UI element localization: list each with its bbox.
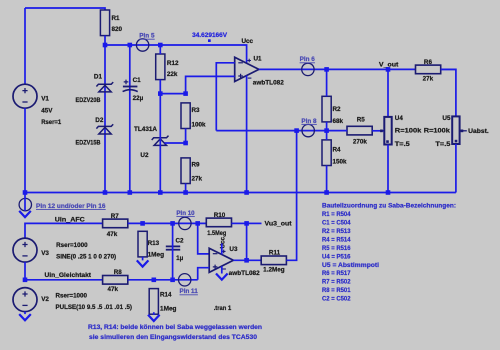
resistor R7 (103, 219, 128, 228)
value 47k R7 (107, 231, 118, 238)
svg-text:1µ: 1µ (176, 255, 184, 262)
wire R12 top (159, 45, 161, 54)
op-amp U3 (209, 248, 233, 272)
junction R13 top (140, 221, 145, 226)
label Pin 5 (139, 33, 155, 40)
label R11 (269, 250, 281, 257)
svg-text:100k: 100k (192, 122, 207, 129)
value EDZV20B (76, 97, 101, 104)
wire U2 reference (165, 142, 186, 144)
label R2 (333, 106, 342, 113)
junction bus C1 (128, 190, 133, 195)
junction R12 top node (158, 43, 163, 48)
wire 0V bus (25, 192, 456, 194)
svg-text:V2: V2 (41, 296, 49, 303)
junction bus D2 (103, 190, 108, 195)
label R4 (333, 146, 342, 153)
capacitor C2 (166, 246, 180, 249)
label Ucc rotated (219, 236, 226, 248)
junction bus U1 supply (244, 190, 249, 195)
wire C2 through (172, 223, 174, 279)
svg-text:34.629166V: 34.629166V (192, 32, 228, 39)
svg-text:Pin 5: Pin 5 (139, 33, 155, 40)
resistor R4 (322, 140, 331, 166)
node Ucc rail wire (105, 45, 247, 63)
port arrow below U3 (216, 274, 228, 280)
pin 12 port arrow (19, 211, 31, 217)
wire R9 bottom to bus (185, 184, 187, 193)
wire V1 bottom to bus (24, 108, 26, 192)
wiper arrow U4 (380, 130, 383, 133)
value 27k R9 (192, 176, 203, 183)
wire pin12 stub (24, 193, 26, 211)
node Uin_AFC label (55, 216, 86, 223)
svg-text:1.5Meg: 1.5Meg (207, 230, 226, 237)
svg-text:22k: 22k (167, 71, 178, 78)
label R9 (192, 162, 201, 169)
svg-text:T=.5: T=.5 (435, 141, 451, 148)
label Pin 10 (176, 210, 195, 217)
wire R4 bottom to bus (326, 166, 328, 193)
label V1 (41, 95, 49, 102)
zener diode D1 (96, 82, 113, 92)
wire R10 right (232, 222, 247, 224)
svg-text:R13: R13 (148, 240, 160, 247)
svg-text:SINE(0 .25 1 0 0 270): SINE(0 .25 1 0 0 270) (56, 254, 116, 261)
svg-text:T=.5: T=.5 (395, 141, 411, 148)
svg-text:R4 = R514: R4 = R514 (322, 236, 351, 243)
annotation 34.629166V (192, 32, 228, 42)
wire R7 right (128, 222, 207, 224)
svg-text:EDZV15B: EDZV15B (76, 139, 101, 146)
wire V1 top to R1 (25, 8, 105, 10)
svg-text:Rser=1: Rser=1 (41, 119, 61, 126)
label R13 (148, 240, 160, 247)
svg-text:68k: 68k (333, 118, 344, 125)
value awbTL082 U3 (229, 270, 260, 277)
pin 8 port circle (302, 124, 314, 136)
value EDZV15B (76, 139, 101, 146)
svg-text:U2: U2 (140, 152, 149, 159)
junction Vu3_out node (244, 221, 249, 226)
label U5 (442, 115, 451, 122)
svg-text:150k: 150k (333, 158, 348, 165)
value R=100k U4 (395, 128, 422, 135)
svg-text:Bauteilzuordnung zu Saba-Bezei: Bauteilzuordnung zu Saba-Bezeichnungen: (322, 203, 456, 210)
comment Saba mapping list (322, 203, 456, 303)
svg-text:U4: U4 (395, 115, 404, 122)
value Rser=1000 V3 (56, 242, 88, 249)
wire Vu3_out stub (247, 222, 262, 224)
pin 6 port circle (302, 63, 314, 75)
svg-text:R=100k: R=100k (395, 128, 422, 135)
svg-text:awbTL082: awbTL082 (253, 79, 284, 86)
label Pin 12 und/oder Pin 16 (36, 203, 106, 210)
svg-text:U5: U5 (442, 115, 451, 122)
wire R12 bottom (159, 80, 161, 94)
junction R2 top node (324, 67, 329, 72)
value 270k (353, 139, 368, 146)
value 100k (192, 122, 207, 129)
svg-text:Rser=1000: Rser=1000 (56, 242, 88, 249)
wire R4 top (326, 131, 328, 140)
svg-text:R7 = R502: R7 = R502 (322, 279, 351, 286)
svg-text:R7: R7 (111, 213, 120, 220)
node Uin_Gleichtakt label (45, 272, 92, 279)
wire U4 bottom to bus (387, 145, 389, 193)
label R6 (424, 59, 433, 66)
svg-text:U1: U1 (254, 55, 263, 62)
wire U1 inverting input (216, 63, 234, 131)
svg-text:TL431A: TL431A (134, 126, 157, 133)
svg-text:1Meg: 1Meg (160, 305, 177, 312)
junction bus V1 (23, 190, 28, 195)
wire Vout down to U4 (387, 69, 389, 117)
wire R14 stub (153, 312, 155, 315)
svg-text:1Meg: 1Meg (148, 251, 165, 258)
junction bus R4 (324, 190, 329, 195)
comment R13 R14 note (88, 324, 262, 341)
shunt regulator U2 TL431A (152, 136, 169, 146)
svg-text:Pin 10: Pin 10 (176, 210, 195, 217)
wire R1 bottom (104, 36, 106, 45)
svg-text:22µ: 22µ (133, 95, 144, 102)
junction R1-D1-C1 node (103, 43, 108, 48)
wire U5 bottom to bus (455, 144, 457, 193)
value 45V (41, 108, 53, 115)
svg-text:270k: 270k (353, 139, 368, 146)
svg-text:C1 = C504: C1 = C504 (322, 220, 351, 227)
svg-text:47k: 47k (107, 231, 118, 238)
potentiometer U4 (384, 117, 391, 145)
wire C1 through (129, 45, 131, 193)
svg-text:R1: R1 (112, 15, 121, 22)
resistor R9 (181, 158, 190, 184)
svg-text:Ucc: Ucc (242, 38, 254, 45)
capacitor C1 (123, 80, 138, 92)
label D1 (94, 74, 103, 81)
label V2 (41, 296, 49, 303)
junction U3 out node (244, 258, 249, 263)
voltage source V2 (13, 288, 37, 312)
svg-text:Uabst.: Uabst. (468, 128, 489, 135)
port arrow below R14 (148, 315, 160, 321)
op-amp U1 (235, 57, 259, 81)
label TL431A (134, 126, 157, 133)
value Rser=1 (41, 119, 61, 126)
resistor R10 (206, 218, 231, 227)
wire U3 neg supply (221, 266, 223, 273)
value 27k R6 (423, 76, 434, 83)
label Pin 11 (180, 288, 199, 295)
voltage source V3 (13, 238, 37, 262)
label U2 (140, 152, 149, 159)
svg-text:Pin 6: Pin 6 (300, 56, 316, 63)
pin 10 port circle (179, 217, 191, 229)
svg-text:R5: R5 (357, 117, 366, 124)
wire R3 bottom (185, 129, 187, 144)
svg-text:R8: R8 (114, 269, 123, 276)
svg-text:Pin 8: Pin 8 (301, 118, 317, 125)
label R10 (214, 212, 226, 219)
svg-text:R2: R2 (333, 106, 342, 113)
zener diode D2 (96, 124, 113, 134)
resistor R12 (156, 54, 165, 80)
svg-text:Pin 11: Pin 11 (180, 288, 199, 295)
svg-text:Rser=1000: Rser=1000 (56, 292, 88, 299)
svg-text:U5 = Abstimmpoti: U5 = Abstimmpoti (322, 262, 379, 269)
svg-text:EDZV20B: EDZV20B (76, 97, 101, 104)
wire V1 positive lead (24, 8, 26, 84)
svg-text:C1: C1 (133, 77, 142, 84)
svg-text:R6: R6 (424, 59, 433, 66)
wire Pin8 rail (216, 130, 326, 132)
svg-text:R8 = R501: R8 = R501 (322, 287, 351, 294)
svg-text:Uin_Gleichtakt: Uin_Gleichtakt (45, 272, 92, 279)
svg-text:R3: R3 (192, 107, 201, 114)
potentiometer U5 (452, 116, 459, 144)
svg-text:V1: V1 (41, 95, 49, 102)
label V3 (41, 250, 49, 257)
value 1.2Meg (263, 267, 285, 274)
svg-text:R10: R10 (214, 212, 226, 219)
resistor R8 (103, 276, 128, 285)
junction C1 top node (128, 43, 133, 48)
node Vu3_out label (265, 221, 293, 228)
label D2 (95, 117, 104, 124)
svg-text:Ucc: Ucc (219, 236, 226, 248)
label Pin 6 (300, 56, 316, 63)
svg-text:R2 = R513: R2 = R513 (322, 228, 351, 235)
wiper stub U5 (460, 130, 467, 133)
pin 5 port circle (136, 39, 148, 51)
value 1.5Meg (207, 230, 226, 237)
svg-text:27k: 27k (423, 76, 434, 83)
node Uabst label (468, 128, 489, 135)
value 1Meg R14 (160, 305, 177, 312)
wire R5 to U4 wiper (372, 130, 384, 132)
junction R14 top (152, 278, 157, 283)
label R3 (192, 107, 201, 114)
resistor R2 (322, 96, 331, 122)
svg-text:R14: R14 (160, 292, 172, 299)
wire V2 bottom stub (24, 312, 26, 315)
value 22k (167, 71, 178, 78)
svg-text:R13, R14: beide können bei Sab: R13, R14: beide können bei Saba weggelas… (88, 324, 262, 331)
label U4 (395, 115, 404, 122)
wire Uin_Gleichtakt rail (25, 279, 103, 281)
resistor R1 (100, 10, 109, 36)
pin 11 port circle (179, 274, 191, 286)
value awbTL082 U1 (253, 79, 284, 86)
wire U1 non-inverting input (186, 76, 235, 93)
svg-text:.tran 1: .tran 1 (214, 305, 232, 312)
svg-text:Vu3_out: Vu3_out (265, 221, 293, 228)
resistor R14 (149, 289, 158, 315)
svg-text:R9: R9 (192, 162, 201, 169)
label R1 (112, 15, 121, 22)
junction R3-R9-ref node (183, 141, 188, 146)
wire R11 right up (286, 131, 296, 261)
wire R8 right (128, 279, 198, 281)
svg-text:D2: D2 (95, 117, 104, 124)
wire U3 pos supply (221, 243, 223, 254)
label C1 (133, 77, 142, 84)
junction V_out node (386, 67, 391, 72)
label R7 (111, 213, 120, 220)
value 150k (333, 158, 348, 165)
value SINE V3 (56, 254, 116, 261)
junction C2 bottom (170, 278, 175, 283)
port arrow below V2 (19, 314, 31, 320)
svg-text:47k: 47k (108, 286, 119, 293)
junction R2-R4-R5 node (324, 128, 329, 133)
value T=.5 U4 (395, 141, 411, 148)
junction R12 bottom (158, 91, 163, 96)
voltage source V1 (13, 84, 37, 108)
wire R5 left (327, 130, 347, 132)
value 22u (133, 95, 144, 102)
junction bus R9 (183, 190, 188, 195)
label Ucc top (242, 38, 254, 45)
svg-text:45V: 45V (41, 108, 53, 115)
svg-text:V3: V3 (41, 250, 49, 257)
wire D1-D2 through (104, 45, 106, 193)
node V_out label (379, 62, 399, 69)
label C2 (176, 237, 185, 244)
resistor R13 (138, 231, 147, 257)
resistor R11 (261, 256, 286, 265)
svg-text:Uin_AFC: Uin_AFC (55, 216, 86, 223)
value Rser=1000 V2 (56, 292, 88, 299)
wire U1 negative supply to bus (246, 76, 248, 193)
junction R11 top node (294, 128, 299, 133)
svg-text:C2 = C502: C2 = C502 (322, 296, 351, 303)
wire U3 output (233, 259, 262, 261)
wire U3 noninv path (198, 268, 210, 280)
resistor R3 (181, 103, 190, 129)
wire Uin_AFC rail (25, 223, 103, 238)
svg-text:U3: U3 (229, 246, 238, 253)
label R8 (114, 269, 123, 276)
wire U2 cathode-anode (159, 94, 161, 193)
value 1Meg R13 (148, 251, 165, 258)
wire R6 right down to U5 (441, 69, 456, 116)
port arrow below R13 (137, 260, 149, 266)
resistor R5 (347, 126, 372, 135)
svg-text:R12: R12 (167, 60, 179, 67)
wire U3 inv path (198, 223, 210, 254)
wire Vu3out down (246, 223, 248, 260)
wire R13 stub (142, 257, 144, 261)
wire V3 bottom (24, 262, 26, 280)
label Pin 8 (301, 118, 317, 125)
resistor R6 (416, 65, 441, 74)
value 1u C2 (176, 255, 184, 262)
svg-text:R6 = R517: R6 = R517 (322, 270, 351, 277)
svg-text:PULSE(10 9.5 .5 .01 .01 .5): PULSE(10 9.5 .5 .01 .01 .5) (56, 304, 133, 311)
svg-text:820: 820 (112, 26, 123, 33)
svg-text:R4: R4 (333, 146, 342, 153)
junction bus U2 (158, 190, 163, 195)
junction bus U4 (386, 190, 391, 195)
wire R12 to R3 node (160, 93, 185, 95)
wire R2 top (326, 69, 328, 96)
svg-text:1.2Meg: 1.2Meg (263, 267, 285, 274)
label R5 (357, 117, 366, 124)
svg-text:R5 = R516: R5 = R516 (322, 245, 351, 252)
svg-text:R=100k: R=100k (424, 128, 451, 135)
svg-text:R1 = R504: R1 = R504 (322, 211, 351, 218)
junction R3 top (183, 91, 188, 96)
wire U1 output rail (259, 68, 456, 70)
junction C2 top (170, 221, 175, 226)
svg-text:U4 = P516: U4 = P516 (322, 253, 351, 260)
svg-text:C2: C2 (176, 237, 185, 244)
svg-text:R11: R11 (269, 250, 281, 257)
junction U3 inv node (195, 221, 200, 226)
svg-text:D1: D1 (94, 74, 103, 81)
svg-text:awbTL082: awbTL082 (229, 270, 260, 277)
svg-text:sie simulieren den Eingangswid: sie simulieren den Eingangswiderstand de… (89, 334, 258, 341)
svg-text:27k: 27k (192, 176, 203, 183)
label R14 (160, 292, 172, 299)
value PULSE V2 (56, 304, 133, 311)
svg-text:Pin 12 und/oder Pin 16: Pin 12 und/oder Pin 16 (36, 203, 106, 210)
pin 12 port circle (19, 198, 31, 210)
label U1 (254, 55, 263, 62)
value 47k R8 (108, 286, 119, 293)
junction V2-V3 node (23, 278, 28, 283)
directive .tran 1 (214, 305, 232, 312)
label U3 (229, 246, 238, 253)
value T=.5 U5 (435, 141, 451, 148)
wire R2 bottom (326, 122, 328, 131)
value 820 (112, 26, 123, 33)
label R12 (167, 60, 179, 67)
value R=100k U5 (424, 128, 451, 135)
value 68k (333, 118, 344, 125)
